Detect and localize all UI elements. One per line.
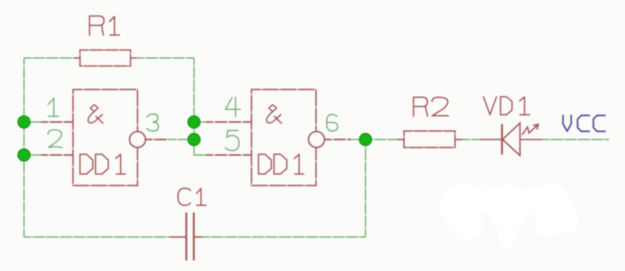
op-amp gate DD1.2 box	[252, 90, 317, 186]
node junction dot 3 (pin4 feed)	[188, 116, 200, 128]
gate DD1.2 pin 5 stub	[206, 154, 252, 156]
node junction dot 2 (pin2 rail)	[18, 149, 30, 161]
wire pin1 stub green	[24, 121, 41, 123]
wire net2 vertical drop to node A2	[193, 58, 195, 122]
op-amp gate DD1.1 box	[73, 90, 138, 186]
gate DD1.2 pin number 5	[226, 131, 240, 151]
node junction dot 5 (gate2 out)	[359, 133, 371, 145]
wire left rail	[23, 58, 25, 237]
gate DD1.2 pin 4 stub	[206, 121, 252, 123]
resistor R1	[74, 50, 138, 66]
gate DD1.1 pin number 2	[48, 130, 62, 148]
wire gate1 output to node B	[169, 139, 194, 141]
wire bottom left to C1	[24, 236, 170, 238]
gate DD1.1 output bubble	[130, 132, 146, 148]
node junction dot 1 (pin1 rail)	[18, 116, 30, 128]
resistor R2	[397, 131, 463, 148]
wire riser node C down	[365, 140, 367, 238]
capacitor C1	[170, 213, 203, 261]
wire net2: R1 right lead to vertical	[137, 57, 194, 59]
label R1	[90, 16, 120, 35]
gate DD1.1 ampersand	[88, 105, 103, 124]
gate DD1.2 output bubble	[309, 132, 325, 148]
gate DD1.1 pin 3 stub	[146, 139, 170, 141]
wire pin5 elbow green	[194, 140, 206, 156]
cathode bar	[501, 124, 503, 155]
wire node C to R2	[366, 139, 398, 141]
right lead	[520, 139, 542, 141]
gate DD1.2 label DD1	[259, 154, 304, 174]
label VD1	[484, 97, 530, 115]
gate DD1.1 pin 2 stub	[41, 154, 73, 156]
watermark blob (decorative)	[440, 184, 578, 248]
wire R2 to VD1	[463, 139, 481, 141]
wire VD1 to VCC	[542, 139, 609, 141]
gate DD1.1 pin number 3	[147, 114, 159, 131]
wire pin4 stub green	[194, 121, 206, 123]
gate DD1.1 label DD1	[80, 154, 125, 174]
wire gate2 output to node C	[351, 139, 366, 141]
gate DD1.1 pin number 1	[48, 99, 59, 117]
gate DD1.1 pin 1 stub	[41, 121, 73, 123]
triangle	[503, 123, 521, 156]
gate DD1.2 pin 6 stub	[325, 139, 352, 141]
label R2	[414, 97, 449, 116]
wire pin2 stub green	[24, 154, 41, 156]
gate DD1.2 pin number 4	[226, 97, 241, 116]
label C1	[178, 188, 206, 205]
left lead	[480, 139, 502, 141]
wire net1: R1 left lead to left rail (top)	[24, 57, 74, 59]
node junction dot 4 (gate1 out)	[188, 133, 200, 145]
gate DD1.2 ampersand	[267, 105, 282, 124]
LED VD1	[480, 123, 542, 156]
net label VCC	[563, 115, 605, 131]
gate DD1.2 pin number 6	[327, 114, 338, 131]
emission arrow zigzag	[522, 125, 538, 136]
wire node A2 to node B vertical	[193, 122, 195, 140]
wire C1 to riser bottom	[203, 236, 366, 238]
